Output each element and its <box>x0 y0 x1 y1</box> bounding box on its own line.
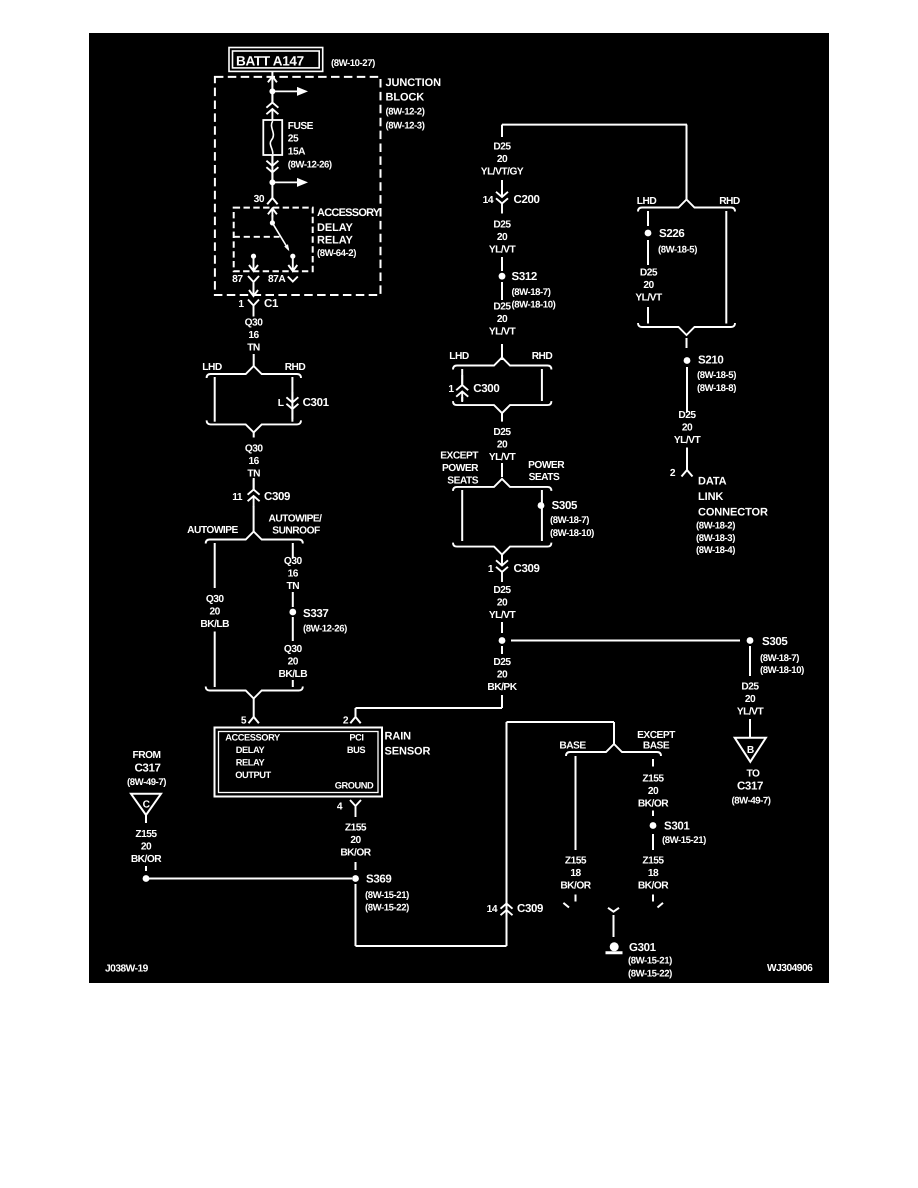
svg-text:20: 20 <box>497 670 508 681</box>
svg-text:C301: C301 <box>303 397 330 409</box>
svg-text:(8W-18-7): (8W-18-7) <box>550 515 589 526</box>
svg-text:YL/VT: YL/VT <box>737 706 765 717</box>
svg-text:(8W-15-22): (8W-15-22) <box>628 969 672 980</box>
svg-text:2: 2 <box>670 468 676 479</box>
junction block output arrow <box>249 283 258 296</box>
wire stub below C301 merge <box>253 431 255 437</box>
svg-text:OUTPUT: OUTPUT <box>235 770 271 780</box>
svg-text:TN: TN <box>247 342 260 353</box>
svg-text:RHD: RHD <box>532 351 553 362</box>
svg-text:S337: S337 <box>303 608 328 620</box>
relay common pivot <box>270 220 275 225</box>
wire C300 LHD branch bottom <box>461 397 463 401</box>
svg-text:20: 20 <box>643 280 654 291</box>
pin 30 fork arms <box>267 198 277 204</box>
svg-text:(8W-10-27): (8W-10-27) <box>331 58 375 69</box>
wire stub to S210 <box>686 338 688 348</box>
svg-text:4: 4 <box>337 802 343 813</box>
svg-text:C309: C309 <box>517 903 543 915</box>
wire bottom horizontal <box>356 945 507 947</box>
wire sunroof branch top <box>292 543 294 558</box>
feed arrow right 1 <box>272 90 300 92</box>
svg-text:YL/VT: YL/VT <box>489 244 517 255</box>
svg-text:87: 87 <box>232 274 243 285</box>
splice S226 <box>645 230 652 237</box>
wire to C309 <box>253 478 255 490</box>
wire to G301 <box>613 915 615 937</box>
svg-text:(8W-15-22): (8W-15-22) <box>365 903 409 914</box>
svg-text:BASE: BASE <box>559 741 586 752</box>
connector C1 fork <box>248 300 259 317</box>
wire to C300 split <box>501 344 503 360</box>
svg-text:Z155: Z155 <box>135 829 157 840</box>
svg-text:Q30: Q30 <box>206 594 225 605</box>
svg-text:D25: D25 <box>741 682 759 693</box>
svg-text:(8W-18-2): (8W-18-2) <box>696 521 735 532</box>
svg-text:15A: 15A <box>288 147 306 158</box>
wire S226 branch top <box>647 211 649 226</box>
svg-text:TN: TN <box>247 468 260 479</box>
svg-text:87A: 87A <box>268 274 286 285</box>
svg-text:(8W-18-10): (8W-18-10) <box>512 300 556 311</box>
svg-text:(8W-18-4): (8W-18-4) <box>696 545 735 556</box>
svg-text:(8W-18-3): (8W-18-3) <box>696 533 735 544</box>
svg-text:14: 14 <box>483 195 494 206</box>
svg-text:YL/VT/GY: YL/VT/GY <box>481 166 524 177</box>
split brace base <box>566 744 661 756</box>
svg-text:G301: G301 <box>629 942 657 954</box>
wire top left drop <box>501 125 503 137</box>
wire to DLC <box>686 448 688 461</box>
svg-text:20: 20 <box>497 232 508 243</box>
svg-text:Q30: Q30 <box>284 644 303 655</box>
svg-text:SENSOR: SENSOR <box>385 746 431 758</box>
svg-text:TN: TN <box>287 581 300 592</box>
node feed 2 <box>269 179 275 185</box>
battery feed box BATT A147 <box>229 48 323 72</box>
svg-text:1: 1 <box>238 299 244 310</box>
svg-text:Z155: Z155 <box>565 856 587 867</box>
merge brace C300 <box>453 401 551 413</box>
svg-text:YL/VT: YL/VT <box>489 610 517 621</box>
wire down to base split <box>613 722 615 745</box>
split brace autowipe <box>206 532 303 544</box>
wire to S312 <box>501 257 503 271</box>
svg-text:YL/VT: YL/VT <box>674 435 702 446</box>
wire RHD branch <box>291 377 293 422</box>
split brace power seats <box>453 479 551 491</box>
svg-text:(8W-12-2): (8W-12-2) <box>386 107 425 118</box>
svg-text:20: 20 <box>497 439 508 450</box>
wire below C triangle <box>145 815 147 823</box>
svg-text:AUTOWIPE: AUTOWIPE <box>187 525 238 536</box>
rain sensor pin 5 fork arms <box>249 717 259 723</box>
wire to relay common <box>271 215 273 223</box>
wire autowipe branch upper <box>214 543 216 588</box>
svg-text:LHD: LHD <box>202 362 222 373</box>
wire S369 down <box>355 884 357 946</box>
wire below S226 <box>647 240 649 265</box>
merge brace autowipe <box>206 687 303 699</box>
svg-text:BATT A147: BATT A147 <box>236 54 304 69</box>
svg-text:BK/OR: BK/OR <box>638 880 669 891</box>
svg-text:1: 1 <box>488 564 494 575</box>
svg-text:BK/OR: BK/OR <box>131 854 162 865</box>
svg-text:C: C <box>143 800 151 811</box>
wire pin2 riser <box>355 708 357 717</box>
svg-text:B: B <box>747 745 754 756</box>
wire to rain sensor pin 5 <box>253 698 255 717</box>
wire to S337 <box>292 592 294 607</box>
wire batt to node <box>271 71 273 91</box>
svg-text:Q30: Q30 <box>284 556 303 567</box>
connector C309 inline (11) <box>248 480 260 507</box>
splice S369 <box>352 875 359 882</box>
relay 87A terminal arrow down <box>288 257 297 271</box>
svg-text:S210: S210 <box>698 355 723 367</box>
wire below center node <box>501 646 503 654</box>
wire above S301 <box>652 811 654 817</box>
splice S305 right <box>747 637 754 644</box>
svg-text:20: 20 <box>648 786 659 797</box>
pin 87 female fork <box>248 276 259 292</box>
svg-text:GROUND: GROUND <box>335 781 374 791</box>
svg-text:16: 16 <box>249 456 260 467</box>
svg-text:J038W-19: J038W-19 <box>105 964 149 975</box>
svg-text:ACCESSORY: ACCESSORY <box>225 733 281 743</box>
svg-text:YL/VT: YL/VT <box>489 326 517 337</box>
wire below S312 <box>501 282 503 300</box>
svg-text:TO: TO <box>747 769 761 780</box>
svg-text:LHD: LHD <box>637 196 657 207</box>
svg-text:PCI: PCI <box>349 733 363 743</box>
wire up to C309-14 <box>506 722 508 946</box>
split brace LHD/RHD C301 <box>207 366 301 378</box>
svg-text:(8W-18-7): (8W-18-7) <box>760 653 799 664</box>
svg-text:POWER: POWER <box>442 463 479 474</box>
diagram background panel <box>89 33 829 983</box>
svg-text:(8W-15-21): (8W-15-21) <box>365 890 409 901</box>
ground G301 symbol <box>610 942 619 951</box>
wire power-seats branch <box>541 490 543 541</box>
node ground left <box>143 875 150 882</box>
svg-text:(8W-18-5): (8W-18-5) <box>697 370 736 381</box>
connector C301 inline <box>286 392 298 419</box>
svg-text:EXCEPT: EXCEPT <box>440 451 479 462</box>
wire pin2 vertical to node <box>501 695 503 708</box>
wire to seats split <box>501 463 503 477</box>
svg-text:11: 11 <box>232 492 243 503</box>
svg-text:(8W-18-5): (8W-18-5) <box>658 245 697 256</box>
wire fuse to node 2 <box>271 155 273 182</box>
connector pair facing down (fuse output) <box>266 155 278 182</box>
wire except-base branch end <box>652 895 654 902</box>
wire except-power-seats branch <box>461 490 463 541</box>
wire top right drop <box>686 125 688 201</box>
wire to C200 <box>501 180 503 197</box>
wire base branch end <box>575 895 577 902</box>
wire to autowipe split <box>253 506 255 533</box>
off-page connector C triangle <box>131 794 161 815</box>
rain sensor pin 4 fork <box>350 800 361 817</box>
svg-text:DATA: DATA <box>698 476 727 488</box>
svg-text:C200: C200 <box>514 194 540 206</box>
svg-text:SUNROOF: SUNROOF <box>272 526 320 537</box>
wire below S210 <box>686 367 688 412</box>
svg-text:5: 5 <box>241 716 247 727</box>
svg-text:(8W-12-3): (8W-12-3) <box>386 121 425 132</box>
wire S226 branch bottom <box>647 307 649 324</box>
wire below S301 <box>652 834 654 850</box>
svg-text:YL/VT: YL/VT <box>489 452 517 463</box>
svg-text:D25: D25 <box>493 657 511 668</box>
wire stub below C300 merge <box>501 412 503 422</box>
relay internal dashed divider <box>234 236 280 238</box>
svg-text:ACCESSORY: ACCESSORY <box>317 207 381 219</box>
node feed 1 <box>269 88 275 94</box>
svg-text:Q30: Q30 <box>245 318 264 329</box>
svg-text:RELAY: RELAY <box>317 235 354 247</box>
svg-text:20: 20 <box>497 597 508 608</box>
svg-text:C317: C317 <box>134 763 160 775</box>
svg-text:SEATS: SEATS <box>529 472 560 483</box>
svg-text:(8W-15-21): (8W-15-21) <box>628 956 672 967</box>
wire sunroof branch bottom <box>292 680 294 687</box>
svg-text:BK/LB: BK/LB <box>200 619 229 630</box>
svg-text:Z155: Z155 <box>642 774 664 785</box>
svg-text:C309: C309 <box>514 563 540 575</box>
split brace C300 <box>453 358 551 370</box>
pin 87A unused fork <box>288 277 298 282</box>
svg-text:AUTOWIPE/: AUTOWIPE/ <box>268 514 322 525</box>
wire stub above ground node <box>145 866 147 871</box>
svg-text:1: 1 <box>448 384 454 395</box>
svg-text:DELAY: DELAY <box>236 745 266 755</box>
svg-text:Z155: Z155 <box>642 856 664 867</box>
svg-text:C1: C1 <box>264 298 279 310</box>
svg-text:20: 20 <box>288 656 299 667</box>
rain sensor pin 2 fork arms <box>350 717 360 723</box>
svg-text:LHD: LHD <box>449 351 469 362</box>
svg-text:C300: C300 <box>473 383 499 395</box>
svg-text:(8W-49-7): (8W-49-7) <box>127 777 166 788</box>
svg-text:L: L <box>278 398 284 409</box>
svg-text:20: 20 <box>682 422 693 433</box>
connector C309 inline (1) <box>496 555 508 582</box>
svg-text:BUS: BUS <box>347 745 366 755</box>
wire autowipe branch lower <box>214 632 216 688</box>
svg-text:D25: D25 <box>493 302 511 313</box>
node center <box>499 637 506 644</box>
svg-text:20: 20 <box>497 154 508 165</box>
wire node to connector <box>271 91 273 102</box>
wire S226 RHD branch <box>725 211 727 324</box>
svg-text:S369: S369 <box>366 874 391 886</box>
svg-text:BK/OR: BK/OR <box>560 880 591 891</box>
svg-text:D25: D25 <box>493 220 511 231</box>
connector C200 inline <box>496 187 508 214</box>
svg-text:YL/VT: YL/VT <box>635 292 663 303</box>
svg-text:18: 18 <box>570 868 581 879</box>
svg-text:16: 16 <box>248 330 259 341</box>
svg-text:BK/PK: BK/PK <box>487 682 517 693</box>
wire C300 LHD branch top <box>461 369 463 385</box>
merge brace power seats <box>453 543 551 555</box>
wire below S305 right <box>749 646 751 676</box>
svg-text:DELAY: DELAY <box>317 222 354 234</box>
svg-text:BK/LB: BK/LB <box>278 669 307 680</box>
fuse 25 15A <box>263 120 282 155</box>
relay 87 terminal arrow down <box>249 257 258 271</box>
merge brace C301 <box>207 420 301 432</box>
junction block dashed box <box>215 77 381 295</box>
svg-text:30: 30 <box>254 194 265 205</box>
relay pin30 terminal arrow <box>268 208 277 217</box>
svg-text:SEATS: SEATS <box>447 476 478 487</box>
svg-text:2: 2 <box>343 716 349 727</box>
rain sensor box <box>215 728 383 797</box>
connector pair facing up (fuse input) <box>266 93 278 120</box>
svg-text:C309: C309 <box>264 491 290 503</box>
svg-text:S312: S312 <box>512 271 537 283</box>
data link connector pin 2 fork <box>682 449 693 477</box>
wire top horizontal <box>502 124 687 126</box>
svg-text:(8W-18-8): (8W-18-8) <box>697 383 736 394</box>
svg-text:RAIN: RAIN <box>385 731 412 743</box>
svg-text:D25: D25 <box>493 427 511 438</box>
wire pin2 horizontal <box>356 707 503 709</box>
wire center to S305 right <box>511 640 740 642</box>
off-page connector B triangle <box>735 738 766 762</box>
svg-text:BASE: BASE <box>643 741 670 752</box>
relay contact 87 <box>251 254 256 259</box>
splice S312 <box>499 273 506 280</box>
svg-text:BK/OR: BK/OR <box>340 847 371 858</box>
svg-text:16: 16 <box>288 568 299 579</box>
svg-text:20: 20 <box>141 841 152 852</box>
connector C309 inline (14) <box>501 894 513 921</box>
split brace S226 <box>638 200 735 212</box>
splice S210 <box>684 357 691 364</box>
svg-text:D25: D25 <box>640 268 658 279</box>
accessory delay relay dashed box <box>234 208 313 272</box>
svg-text:D25: D25 <box>493 142 511 153</box>
svg-text:18: 18 <box>648 868 659 879</box>
svg-text:WJ304906: WJ304906 <box>767 963 813 974</box>
wire to off-page B <box>749 719 751 737</box>
wire to center node <box>501 622 503 633</box>
svg-text:EXCEPT: EXCEPT <box>637 730 676 741</box>
svg-text:20: 20 <box>745 694 756 705</box>
svg-text:Q30: Q30 <box>245 444 264 455</box>
svg-text:FROM: FROM <box>133 750 161 761</box>
splice S337 <box>289 609 296 616</box>
svg-text:25: 25 <box>288 134 299 145</box>
merge hooks to ground <box>563 903 569 908</box>
svg-text:RHD: RHD <box>285 362 306 373</box>
svg-text:20: 20 <box>210 606 221 617</box>
wire below S337 <box>292 617 294 641</box>
svg-text:(8W-15-21): (8W-15-21) <box>662 835 706 846</box>
svg-text:S305: S305 <box>762 636 788 648</box>
wire to C309-1 <box>501 555 503 563</box>
svg-text:S305: S305 <box>552 500 578 512</box>
wire except-base branch top <box>652 759 654 767</box>
svg-text:JUNCTION: JUNCTION <box>386 77 442 89</box>
wire LHD branch <box>214 377 216 422</box>
svg-text:(8W-49-7): (8W-49-7) <box>732 796 771 807</box>
svg-text:(8W-18-7): (8W-18-7) <box>512 287 551 298</box>
relay switch blade <box>272 223 288 250</box>
svg-text:FUSE: FUSE <box>288 121 314 132</box>
wire to C301 split <box>253 354 255 367</box>
svg-text:BLOCK: BLOCK <box>386 92 425 104</box>
wire base branch <box>575 756 577 850</box>
svg-text:D25: D25 <box>678 410 696 421</box>
svg-text:20: 20 <box>497 314 508 325</box>
splice S301 <box>650 822 657 829</box>
svg-text:CONNECTOR: CONNECTOR <box>698 507 768 519</box>
svg-text:(8W-18-10): (8W-18-10) <box>550 528 594 539</box>
wire pin4 stub <box>355 816 357 818</box>
svg-text:(8W-18-10): (8W-18-10) <box>760 665 804 676</box>
svg-text:(8W-12-26): (8W-12-26) <box>288 160 332 171</box>
feed arrow right 2 <box>272 181 300 183</box>
wire top of ground loop <box>507 721 615 723</box>
svg-text:D25: D25 <box>493 585 511 596</box>
relay contact 87A <box>290 254 295 259</box>
wire node2 to pin 30 <box>271 182 273 198</box>
svg-text:LINK: LINK <box>698 491 723 503</box>
svg-text:S226: S226 <box>659 228 684 240</box>
terminal arrow up into BATT <box>268 76 277 82</box>
svg-text:S301: S301 <box>664 821 690 833</box>
svg-text:20: 20 <box>350 835 361 846</box>
connector C300 inline <box>456 375 468 402</box>
svg-text:Z155: Z155 <box>345 823 367 834</box>
wire above S369 <box>355 862 357 870</box>
svg-text:BK/OR: BK/OR <box>638 798 669 809</box>
svg-text:C317: C317 <box>737 781 763 793</box>
merge brace S226 <box>638 323 735 335</box>
svg-text:(8W-64-2): (8W-64-2) <box>317 248 356 259</box>
svg-text:14: 14 <box>487 904 498 915</box>
svg-text:POWER: POWER <box>528 460 565 471</box>
svg-text:RELAY: RELAY <box>236 758 266 768</box>
svg-text:RHD: RHD <box>719 196 740 207</box>
wire C300 RHD branch <box>541 369 543 401</box>
svg-text:(8W-12-26): (8W-12-26) <box>303 624 347 635</box>
wire ground horizontal to S369 <box>146 878 352 880</box>
splice S305 mid <box>538 502 545 509</box>
